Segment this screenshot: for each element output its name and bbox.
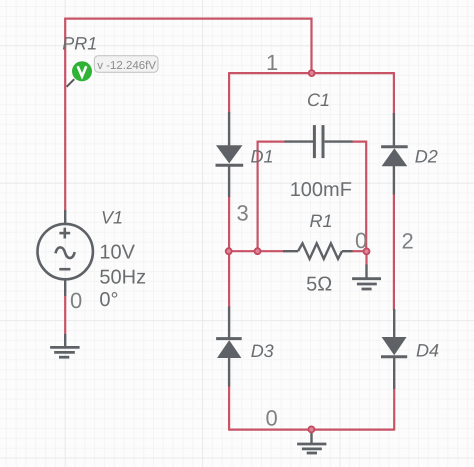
diode D4 (381, 309, 407, 389)
svg-text:D4: D4 (416, 340, 439, 360)
svg-text:PR1: PR1 (62, 34, 97, 54)
junction dot node 0 (bottom rail / ground) (308, 426, 314, 432)
svg-text:0: 0 (355, 228, 367, 253)
probe PR1 head (72, 61, 92, 81)
probe tooltip (94, 56, 158, 73)
wire: right rail below D4 (393, 388, 395, 431)
resistor R1 (283, 243, 353, 259)
svg-text:2: 2 (402, 229, 414, 254)
svg-text:5Ω: 5Ω (306, 274, 332, 296)
ground (bottom center) (297, 429, 326, 453)
svg-text:C1: C1 (307, 90, 330, 110)
svg-text:D3: D3 (251, 341, 274, 361)
wire: left rail below D3 (228, 386, 230, 431)
svg-text:V1: V1 (101, 207, 123, 227)
svg-text:R1: R1 (310, 211, 333, 231)
wire: bottom rail (229, 429, 394, 431)
wire: R1 right to node 0 (352, 250, 366, 252)
svg-text:D1: D1 (251, 147, 274, 167)
wire: left rail above D1 (228, 72, 230, 113)
wire: right rail D2 to D4 (393, 194, 395, 310)
junction dot node 0 (R1 right / ground) (364, 248, 370, 254)
svg-text:0°: 0° (99, 289, 118, 311)
wire: right rail above D2 (393, 72, 395, 114)
capacitor C1 (285, 125, 353, 158)
svg-text:3: 3 (237, 201, 249, 226)
wire: node 0 to ground stub (365, 251, 367, 265)
diode D3 (216, 307, 242, 387)
svg-text:50Hz: 50Hz (99, 267, 146, 289)
ground (node 0 right of R1) (352, 265, 381, 290)
diode D2 (381, 113, 408, 195)
probe PR1 pointer (67, 79, 75, 87)
wire: bridge top rail (229, 72, 394, 74)
wire: V1 bottom to ground (64, 295, 66, 335)
svg-text:D2: D2 (415, 147, 438, 167)
wire: node3 row left of R1 (229, 250, 284, 252)
svg-text:1: 1 (266, 50, 278, 75)
svg-text:0: 0 (70, 288, 82, 313)
ground (V1) (50, 347, 80, 357)
diode D1 (216, 112, 244, 197)
junction dot node 3 (left rail / R1 row) (226, 248, 232, 254)
wire: V1 top to bridge top node (65, 19, 311, 211)
junction dot node 3 (capacitor branch / R1 row) (255, 248, 261, 254)
AC source V1 (37, 224, 92, 279)
wire: left rail D1 to node 3 row to D3 (228, 196, 230, 307)
wire: capacitor right branch to node 0 (352, 142, 367, 252)
svg-text:v -12.246fV: v -12.246fV (97, 60, 156, 72)
wire: capacitor left branch to node 3 (258, 142, 285, 252)
svg-text:0: 0 (266, 405, 278, 430)
svg-text:10V: 10V (99, 242, 135, 264)
junction dot node 1 (top) (309, 70, 315, 76)
V1 source leads (64, 210, 66, 347)
svg-text:100mF: 100mF (290, 179, 352, 201)
